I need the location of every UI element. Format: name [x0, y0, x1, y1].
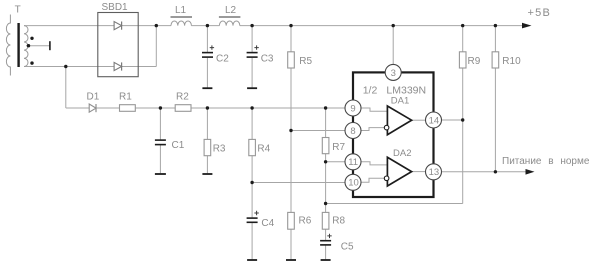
wire R7 hysteresis vertical with R8 C5 chain — [325, 108, 327, 259]
resistor R7 — [322, 138, 329, 154]
wire secondary centre tap — [26, 45, 50, 47]
svg-text:+5В: +5В — [528, 7, 551, 19]
wire feedback bottom line to output node — [326, 120, 463, 204]
svg-text:D1: D1 — [87, 92, 100, 103]
resistor R1 — [120, 105, 136, 112]
transformer T core — [17, 23, 19, 67]
junction output 13 R10 — [494, 170, 497, 173]
wire R5 R6 divider vertical — [290, 26, 292, 260]
junction rail C3 — [250, 24, 253, 27]
polarity dot upper secondary — [30, 37, 33, 40]
wire C4 branch to common terminal — [251, 183, 253, 260]
junction centre tap — [27, 44, 30, 47]
resistor R4 — [249, 139, 256, 155]
junction pin 11 R7 — [324, 160, 327, 163]
terminal dash R6 — [286, 259, 296, 261]
svg-text:3: 3 — [391, 68, 396, 79]
resistor R6 — [288, 212, 295, 229]
junction pin 8 divider — [289, 129, 292, 132]
op-amp box DA LM339N — [353, 72, 434, 197]
terminal bar centre tap — [49, 41, 51, 50]
junction pin 10 C4 — [250, 181, 253, 184]
svg-text:R9: R9 — [468, 56, 481, 67]
svg-text:R1: R1 — [119, 92, 132, 103]
capacitor C4 — [247, 217, 258, 219]
wire pin 13 output line to status arrow — [441, 171, 526, 173]
svg-text:R3: R3 — [213, 144, 226, 155]
pin 10 — [345, 174, 361, 190]
inductor L1 — [171, 21, 191, 26]
junction output 14 R9 — [461, 118, 464, 121]
arrow +5V — [522, 23, 532, 29]
capacitor C1 — [155, 139, 166, 141]
transformer T secondary winding — [24, 26, 28, 67]
pin 8 — [345, 123, 361, 139]
svg-text:R10: R10 — [502, 56, 521, 67]
pin 3 — [385, 64, 401, 80]
resistor R3 — [204, 139, 211, 155]
junction rail C2 — [206, 24, 209, 27]
wire C3 branch — [251, 26, 253, 88]
wire C2 branch — [206, 26, 208, 88]
resistor R2 — [175, 105, 191, 112]
arrow power ok output — [526, 169, 535, 175]
wire top rail from transformer secondary top to +5V arrow — [24, 25, 522, 27]
resistor R10 — [492, 52, 499, 68]
svg-text:C1: C1 — [172, 140, 185, 151]
svg-text:R8: R8 — [332, 216, 345, 227]
wire R10 branch — [494, 26, 496, 172]
diode SBD1 upper — [114, 22, 122, 30]
diode SBD1 lower — [114, 62, 122, 70]
junction rail pin 3 — [392, 24, 395, 27]
capacitor C3 — [247, 52, 258, 54]
junction feedback R8 — [324, 202, 327, 205]
capacitor C5 — [320, 240, 331, 242]
svg-text:R7: R7 — [332, 142, 345, 153]
wire pin 10 line from R4/C4 node to circle 10 — [252, 182, 345, 184]
junction rail R5 — [289, 24, 292, 27]
junction mid R4 — [250, 106, 253, 109]
wire R3 branch — [206, 108, 208, 173]
svg-text:R5: R5 — [299, 56, 312, 67]
resistor R5 — [288, 52, 295, 68]
terminal dash C2 — [202, 87, 212, 89]
svg-text:C2: C2 — [216, 54, 229, 65]
junction transformer bottom tap to D1 — [64, 65, 67, 68]
svg-text:L2: L2 — [225, 5, 237, 16]
svg-text:10: 10 — [348, 178, 359, 189]
svg-text:C5: C5 — [341, 242, 354, 253]
terminal dash C5 — [321, 259, 331, 261]
terminal dash C4 — [247, 259, 257, 261]
svg-text:SBD1: SBD1 — [102, 2, 129, 13]
svg-text:R4: R4 — [257, 144, 270, 155]
resistor R8 — [322, 212, 329, 229]
wire C1 branch — [159, 108, 161, 173]
svg-text:R2: R2 — [176, 92, 189, 103]
diode D1 — [89, 104, 96, 112]
svg-text:T: T — [15, 5, 21, 16]
svg-text:DA2: DA2 — [393, 148, 411, 159]
wire pin 11 line — [326, 161, 346, 163]
polarity dot lower secondary — [30, 61, 33, 64]
svg-text:9: 9 — [350, 103, 355, 114]
resistor R9 — [459, 52, 466, 68]
svg-text:L1: L1 — [175, 5, 187, 16]
svg-text:8: 8 — [350, 126, 355, 137]
wire IC pin 3 supply drop — [392, 26, 394, 65]
pin 9 — [345, 100, 361, 116]
junction rail R9 — [461, 24, 464, 27]
pin 11 — [345, 154, 361, 170]
svg-text:C4: C4 — [261, 218, 274, 229]
wire R4 branch down to pin 10 line — [251, 108, 253, 183]
svg-text:DA1: DA1 — [391, 96, 409, 107]
wire pin 8 line from divider to circle 8 — [291, 130, 346, 132]
wire mid sense line D1/R1/R2 to pin 9 — [66, 67, 346, 109]
svg-text:11: 11 — [348, 157, 358, 168]
capacitor C2 — [202, 52, 213, 54]
svg-text:13: 13 — [429, 167, 440, 178]
junction mid R7 — [324, 106, 327, 109]
junction mid R3 — [206, 106, 209, 109]
svg-text:R6: R6 — [299, 216, 312, 227]
terminal dash R3 — [202, 173, 212, 175]
wire R9 branch — [462, 26, 464, 120]
pin 14 — [426, 112, 442, 128]
wire pin 14 output to R9 node — [441, 119, 463, 121]
transformer T primary winding — [6, 15, 10, 76]
svg-text:14: 14 — [429, 115, 440, 126]
pin 13 — [426, 164, 442, 180]
terminal dash C1 — [155, 173, 166, 175]
svg-text:C3: C3 — [261, 54, 274, 65]
inductor L2 — [219, 21, 239, 26]
terminal dash C3 — [247, 87, 257, 89]
svg-text:Питание в норме: Питание в норме — [502, 156, 590, 167]
wire transformer secondary bottom tap to SBD1 lower diode — [24, 26, 156, 67]
junction rail SBD1 output — [155, 24, 158, 27]
junction rail R10 — [494, 24, 497, 27]
junction mid C1 — [159, 106, 162, 109]
rectifier SBD1 box — [98, 13, 138, 77]
